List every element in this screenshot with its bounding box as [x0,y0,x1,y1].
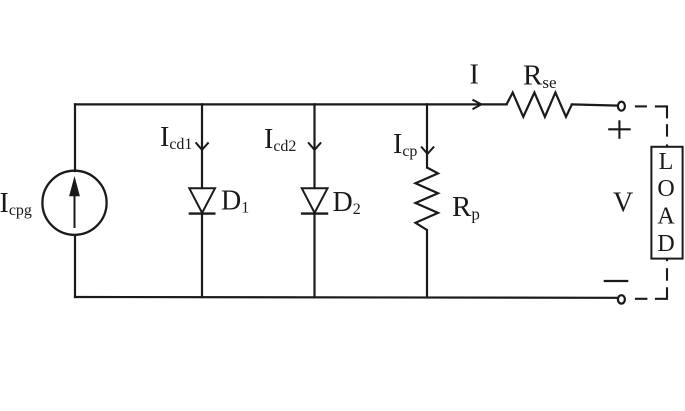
wire bottom bus [75,296,617,299]
plus sign [608,120,631,139]
terminal node plus [618,102,625,111]
resistor Rp [416,168,439,231]
svg-text:I: I [470,60,479,91]
svg-text:D2: D2 [333,187,361,218]
svg-text:Icd2: Icd2 [264,124,296,155]
wire Rp branch upper [426,104,428,167]
current arrow Icp [421,147,434,154]
current source Icpg [42,171,106,235]
wire diode D2 branch upper [313,104,315,188]
minus sign [604,280,629,282]
svg-text:D: D [657,231,674,257]
dashed wire bottom to load [635,259,667,299]
load box [651,147,682,259]
svg-text:D1: D1 [221,186,249,217]
svg-text:O: O [657,176,674,202]
svg-text:Icp: Icp [393,129,417,160]
wire left vertical upper [74,104,76,171]
wire diode D1 branch upper [201,104,203,188]
diode D2 [301,188,328,213]
current arrow I [473,100,482,110]
wire top right to terminal [572,104,617,105]
current arrow Icd1 [196,142,209,149]
wire Rp branch lower [426,230,428,297]
wire top bus [75,103,507,105]
svg-text:L: L [659,149,674,175]
wire diode D2 branch lower [313,214,315,297]
svg-text:Rse: Rse [523,60,557,92]
label LOAD [657,149,675,257]
current arrow Icd2 [308,142,321,149]
terminal node minus [618,295,625,303]
wire diode D1 branch lower [201,214,203,297]
diode D1 [189,188,216,213]
svg-text:Icpg: Icpg [0,188,32,219]
svg-text:Icd1: Icd1 [160,122,192,153]
wire left vertical lower [74,235,76,297]
svg-text:A: A [657,204,675,230]
svg-text:V: V [613,188,633,219]
resistor Rse [507,93,572,117]
svg-text:Rp: Rp [452,191,480,224]
dashed wire top to load [635,106,667,146]
